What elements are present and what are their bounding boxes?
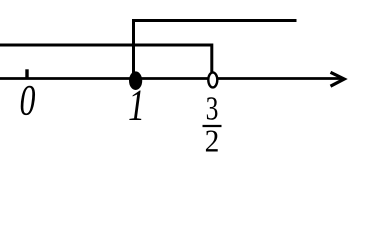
svg-text:1: 1 (128, 80, 145, 130)
svg-text:0: 0 (20, 77, 36, 125)
svg-text:3: 3 (206, 90, 219, 127)
svg-text:2: 2 (205, 123, 220, 158)
